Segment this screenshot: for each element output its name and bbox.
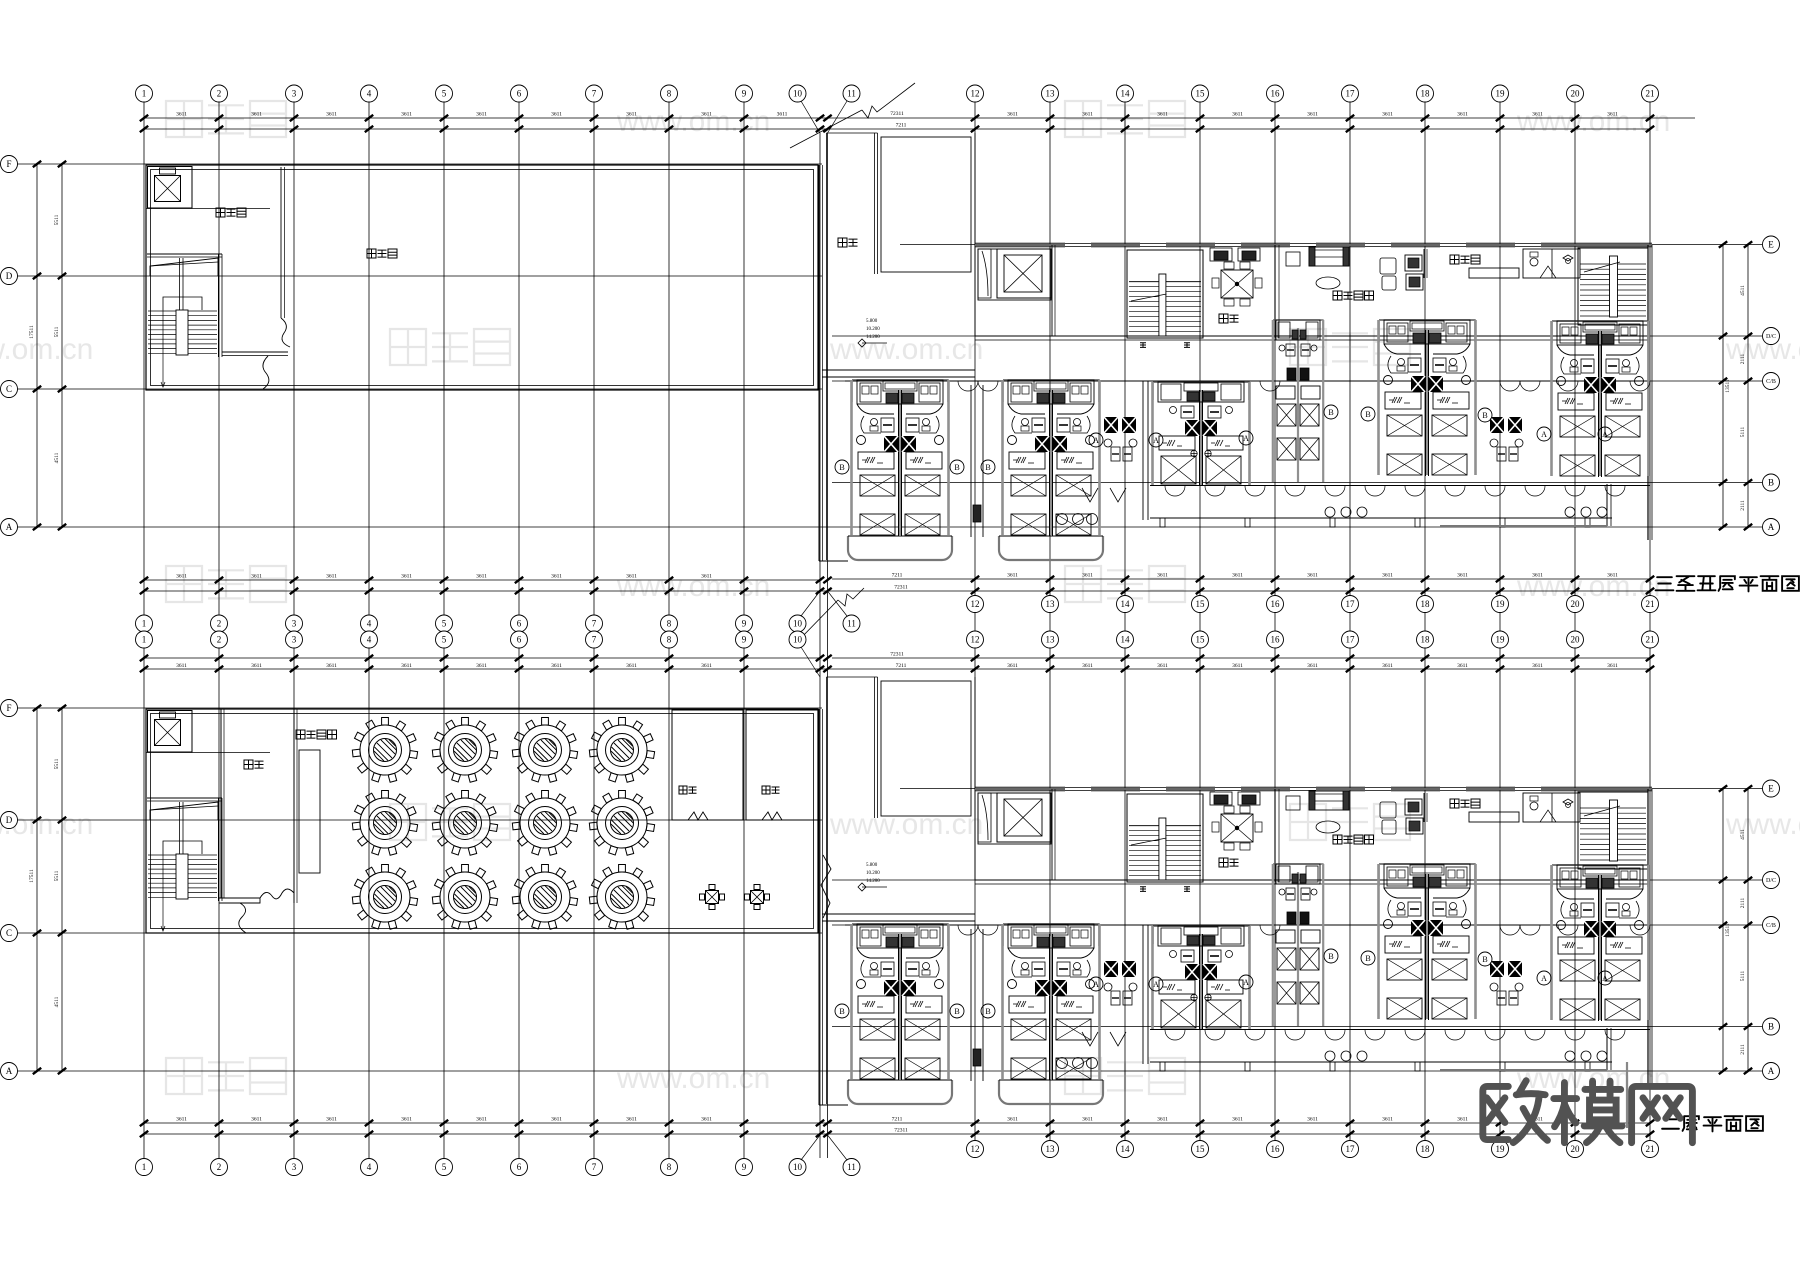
svg-text:2: 2	[217, 1162, 222, 1172]
svg-text:A: A	[1541, 974, 1547, 983]
svg-text:4511: 4511	[54, 996, 60, 1007]
svg-text:3611: 3611	[1157, 112, 1168, 118]
svg-text:3: 3	[292, 635, 297, 645]
svg-text:9: 9	[742, 635, 747, 645]
svg-text:2111: 2111	[1740, 500, 1746, 511]
svg-text:B: B	[1482, 411, 1487, 420]
svg-text:3611: 3611	[1157, 663, 1168, 669]
svg-text:3611: 3611	[326, 574, 337, 580]
svg-text:5511: 5511	[54, 870, 60, 881]
svg-text:3611: 3611	[401, 1117, 412, 1123]
svg-text:10: 10	[793, 619, 803, 629]
svg-text:16: 16	[1271, 599, 1281, 609]
svg-text:A: A	[1153, 436, 1159, 445]
svg-text:21: 21	[1646, 599, 1655, 609]
svg-text:3611: 3611	[1157, 1117, 1168, 1123]
svg-text:5111: 5111	[1740, 426, 1746, 437]
svg-text:19: 19	[1496, 599, 1506, 609]
svg-text:www.om.cn: www.om.cn	[616, 1062, 770, 1095]
stair	[1127, 794, 1203, 882]
svg-text:3611: 3611	[1307, 573, 1318, 579]
svg-text:www.om.cn: www.om.cn	[829, 808, 983, 841]
balconies	[848, 1080, 952, 1104]
stair	[1578, 248, 1648, 325]
svg-text:3611: 3611	[1232, 1117, 1243, 1123]
activity label	[1333, 291, 1342, 300]
svg-text:3611: 3611	[701, 574, 712, 580]
svg-text:13511: 13511	[1725, 923, 1731, 937]
svg-text:7211: 7211	[892, 573, 903, 579]
kitchen counters	[1210, 792, 1232, 805]
svg-text:3611: 3611	[1532, 112, 1543, 118]
svg-text:9: 9	[742, 1162, 747, 1172]
svg-text:14: 14	[1121, 635, 1131, 645]
svg-text:3611: 3611	[176, 112, 187, 118]
svg-text:D/C: D/C	[1766, 878, 1776, 884]
room tags	[835, 1004, 849, 1018]
vertical grid columns, top plan	[143, 102, 145, 1158]
svg-text:10: 10	[793, 1162, 803, 1172]
svg-text:12: 12	[971, 599, 980, 609]
private rooms	[672, 710, 743, 820]
svg-text:18: 18	[1421, 599, 1431, 609]
svg-text:3611: 3611	[1382, 663, 1393, 669]
svg-text:5: 5	[442, 89, 447, 99]
activity space	[1286, 252, 1300, 266]
svg-text:A: A	[1243, 978, 1249, 987]
svg-text:8: 8	[667, 619, 672, 629]
room tags	[835, 460, 849, 474]
svg-text:5111: 5111	[1740, 970, 1746, 981]
svg-text:3611: 3611	[551, 112, 562, 118]
svg-text:18: 18	[1421, 89, 1431, 99]
svg-text:72311: 72311	[894, 585, 908, 591]
corridor strip dy=0	[818, 165, 820, 561]
balconies	[848, 536, 952, 560]
svg-text:5511: 5511	[54, 326, 60, 337]
svg-text:4: 4	[367, 635, 372, 645]
svg-text:7: 7	[592, 635, 597, 645]
svg-text:17511: 17511	[29, 869, 35, 883]
room unit	[852, 924, 948, 946]
corridor label	[838, 238, 847, 247]
svg-text:6: 6	[517, 619, 522, 629]
svg-text:14: 14	[1121, 89, 1131, 99]
svg-text:3611: 3611	[1307, 1117, 1318, 1123]
svg-text:F: F	[6, 703, 11, 713]
svg-text:7: 7	[592, 619, 597, 629]
svg-text:3611: 3611	[1457, 573, 1468, 579]
svg-text:20: 20	[1571, 89, 1581, 99]
svg-text:12: 12	[971, 635, 980, 645]
svg-text:5511: 5511	[54, 758, 60, 769]
svg-text:E: E	[1768, 240, 1774, 250]
svg-text:3611: 3611	[1607, 112, 1618, 118]
svg-text:16: 16	[1271, 1144, 1281, 1154]
svg-text:A: A	[1243, 434, 1249, 443]
svg-text:www.om.cn: www.om.cn	[0, 333, 93, 366]
svg-text:15: 15	[1196, 89, 1206, 99]
svg-text:3611: 3611	[1232, 112, 1243, 118]
stair	[1578, 792, 1648, 869]
dining table	[1221, 814, 1253, 842]
svg-text:B: B	[985, 1007, 990, 1016]
bathroom cluster	[1490, 961, 1523, 1005]
watermark layer	[166, 101, 202, 137]
room unit	[1552, 865, 1648, 887]
svg-text:11: 11	[847, 619, 856, 629]
svg-text:7211: 7211	[892, 1117, 903, 1123]
svg-text:17511: 17511	[29, 325, 35, 339]
kitchen label	[1219, 858, 1228, 867]
elevator lobby	[978, 793, 1051, 844]
svg-text:1: 1	[142, 1162, 147, 1172]
svg-text:5: 5	[442, 619, 447, 629]
unit2 bath circles	[1057, 514, 1068, 525]
svg-text:3611: 3611	[1157, 573, 1168, 579]
svg-text:16: 16	[1271, 635, 1281, 645]
svg-text:A: A	[1093, 980, 1099, 989]
svg-text:B: B	[954, 463, 959, 472]
svg-text:3611: 3611	[1307, 663, 1318, 669]
svg-text:4511: 4511	[54, 452, 60, 463]
svg-text:3611: 3611	[326, 1117, 337, 1123]
svg-text:B: B	[1768, 1022, 1774, 1032]
svg-text:3611: 3611	[1082, 663, 1093, 669]
svg-text:3611: 3611	[1532, 573, 1543, 579]
nurse station	[1423, 249, 1425, 278]
svg-text:www.om.cn: www.om.cn	[1725, 808, 1800, 841]
svg-text:A: A	[6, 522, 13, 532]
label laundry	[216, 208, 225, 217]
svg-text:8: 8	[667, 89, 672, 99]
svg-text:3: 3	[292, 619, 297, 629]
svg-text:5: 5	[442, 1162, 447, 1172]
svg-text:3611: 3611	[1007, 663, 1018, 669]
svg-text:19: 19	[1496, 1144, 1506, 1154]
svg-text:17: 17	[1346, 599, 1356, 609]
svg-text:72311: 72311	[894, 1128, 908, 1134]
svg-text:3611: 3611	[1457, 663, 1468, 669]
svg-text:3611: 3611	[701, 663, 712, 669]
banquet round tables	[352, 718, 417, 783]
svg-text:B: B	[1328, 408, 1333, 417]
svg-text:6: 6	[517, 1162, 522, 1172]
svg-text:10: 10	[793, 635, 803, 645]
svg-text:3611: 3611	[1607, 573, 1618, 579]
svg-text:3611: 3611	[626, 574, 637, 580]
svg-text:14.200: 14.200	[866, 879, 880, 884]
svg-text:C: C	[6, 928, 12, 938]
svg-text:3611: 3611	[551, 574, 562, 580]
svg-text:4: 4	[367, 619, 372, 629]
bathroom cluster	[1490, 417, 1523, 461]
svg-text:3611: 3611	[701, 112, 712, 118]
svg-text:1: 1	[142, 635, 147, 645]
svg-text:3611: 3611	[626, 1117, 637, 1123]
svg-text:3611: 3611	[1007, 112, 1018, 118]
svg-text:4: 4	[367, 1162, 372, 1172]
svg-text:10.200: 10.200	[866, 327, 880, 332]
title: 3rd-5th floor plan	[1656, 577, 1674, 590]
svg-text:C/B: C/B	[1766, 923, 1776, 929]
big logo 欧模网	[1483, 1081, 1548, 1143]
svg-text:10: 10	[793, 89, 803, 99]
svg-text:19: 19	[1496, 89, 1506, 99]
svg-text:A: A	[1768, 522, 1775, 532]
svg-text:11: 11	[847, 89, 856, 99]
svg-text:8: 8	[667, 1162, 672, 1172]
svg-text:20: 20	[1571, 599, 1581, 609]
svg-text:13: 13	[1046, 1144, 1056, 1154]
svg-text:3611: 3611	[1382, 573, 1393, 579]
svg-text:3611: 3611	[1607, 663, 1618, 669]
svg-text:72311: 72311	[890, 111, 904, 117]
svg-text:13: 13	[1046, 89, 1056, 99]
svg-text:A: A	[1602, 974, 1608, 983]
bathroom cluster	[1104, 961, 1137, 1005]
label kitchen	[244, 760, 253, 769]
svg-text:15: 15	[1196, 635, 1206, 645]
svg-text:B: B	[1365, 410, 1370, 419]
bottom plan: left building (banquet hall)	[146, 709, 818, 933]
svg-text:19: 19	[1496, 635, 1506, 645]
vertical grid columns, bottom plan	[136, 631, 153, 648]
small tables	[700, 885, 725, 910]
svg-text:2: 2	[217, 89, 222, 99]
svg-text:21: 21	[1646, 89, 1655, 99]
svg-text:3611: 3611	[701, 1117, 712, 1123]
svg-text:3611: 3611	[476, 663, 487, 669]
top plan: left building (laundry/drying)	[146, 165, 818, 390]
right building dy=0	[975, 244, 1652, 246]
svg-text:2111: 2111	[1740, 353, 1746, 364]
svg-text:3: 3	[292, 89, 297, 99]
svg-text:3611: 3611	[1307, 112, 1318, 118]
svg-text:20: 20	[1571, 1144, 1581, 1154]
svg-text:7211: 7211	[896, 123, 907, 129]
svg-text:1: 1	[142, 619, 147, 629]
svg-text:3611: 3611	[777, 112, 788, 118]
svg-text:D: D	[6, 271, 13, 281]
svg-text:2111: 2111	[1740, 897, 1746, 908]
nurse station	[1423, 793, 1425, 822]
svg-text:10.200: 10.200	[866, 871, 880, 876]
corridor strip dy=544	[818, 709, 820, 1105]
svg-text:B: B	[839, 463, 844, 472]
elevator	[148, 711, 193, 753]
svg-text:4: 4	[367, 89, 372, 99]
svg-text:3611: 3611	[176, 1117, 187, 1123]
stair	[1127, 250, 1203, 338]
svg-text:3611: 3611	[1007, 1117, 1018, 1123]
svg-text:A: A	[1602, 430, 1608, 439]
svg-text:7: 7	[592, 1162, 597, 1172]
svg-text:B: B	[1328, 952, 1333, 961]
svg-text:3611: 3611	[251, 574, 262, 580]
svg-text:A: A	[1153, 980, 1159, 989]
svg-text:3611: 3611	[551, 1117, 562, 1123]
svg-text:9: 9	[742, 89, 747, 99]
horizontal grid rows dy=544	[18, 707, 823, 709]
break line	[790, 110, 862, 148]
svg-text:3611: 3611	[1382, 1117, 1393, 1123]
svg-text:www.om.cn: www.om.cn	[616, 570, 770, 603]
svg-text:3611: 3611	[176, 663, 187, 669]
svg-text:3611: 3611	[1082, 573, 1093, 579]
svg-text:5511: 5511	[54, 214, 60, 225]
svg-text:3611: 3611	[251, 1117, 262, 1123]
svg-text:8: 8	[667, 635, 672, 645]
svg-text:B: B	[1365, 954, 1370, 963]
activity space	[1286, 796, 1300, 810]
svg-text:B: B	[954, 1007, 959, 1016]
room unit	[1153, 382, 1249, 400]
svg-text:3611: 3611	[626, 663, 637, 669]
svg-text:7: 7	[592, 89, 597, 99]
svg-text:A: A	[1541, 430, 1547, 439]
svg-text:C: C	[6, 384, 12, 394]
svg-text:11: 11	[847, 1162, 856, 1172]
laundry wall	[280, 167, 282, 318]
svg-text:3611: 3611	[1457, 112, 1468, 118]
label drying yard	[367, 249, 376, 258]
stair	[147, 253, 222, 255]
svg-text:B: B	[1768, 478, 1774, 488]
narrow room unit	[1273, 320, 1323, 338]
room unit	[1379, 864, 1475, 886]
svg-text:3611: 3611	[1457, 1117, 1468, 1123]
svg-text:3611: 3611	[401, 663, 412, 669]
room unit	[1003, 924, 1099, 946]
svg-text:17: 17	[1346, 635, 1356, 645]
svg-text:7211: 7211	[896, 663, 907, 669]
svg-text:18: 18	[1421, 1144, 1431, 1154]
svg-text:16: 16	[1271, 89, 1281, 99]
svg-text:D: D	[6, 815, 13, 825]
svg-text:3611: 3611	[1082, 112, 1093, 118]
svg-text:5: 5	[442, 635, 447, 645]
svg-text:5.800: 5.800	[866, 319, 878, 324]
svg-text:3611: 3611	[476, 1117, 487, 1123]
svg-text:4511: 4511	[1740, 829, 1746, 840]
svg-text:72311: 72311	[890, 652, 904, 658]
svg-text:13: 13	[1046, 635, 1056, 645]
room unit	[1003, 380, 1099, 402]
svg-text:21: 21	[1646, 635, 1655, 645]
dining table	[1221, 270, 1253, 298]
svg-text:www.om.cn: www.om.cn	[829, 333, 983, 366]
svg-text:3611: 3611	[326, 663, 337, 669]
svg-text:15: 15	[1196, 599, 1206, 609]
title: 2nd floor plan	[1662, 1119, 1679, 1128]
svg-text:3611: 3611	[1232, 573, 1243, 579]
svg-text:9: 9	[742, 619, 747, 629]
narrow room unit	[1273, 864, 1323, 882]
svg-text:13: 13	[1046, 599, 1056, 609]
svg-text:17: 17	[1346, 89, 1356, 99]
elevator lobby	[978, 249, 1051, 300]
svg-text:E: E	[1768, 784, 1774, 794]
horizontal grid rows dy=0	[18, 163, 823, 165]
room unit	[1153, 926, 1249, 944]
svg-text:B: B	[1482, 955, 1487, 964]
svg-text:13511: 13511	[1725, 379, 1731, 393]
svg-text:6: 6	[517, 89, 522, 99]
svg-text:3611: 3611	[551, 663, 562, 669]
unit2 bath circles	[1057, 1058, 1068, 1069]
svg-text:www.om.cn: www.om.cn	[616, 105, 770, 138]
kitchen counters	[1210, 248, 1232, 261]
svg-text:18: 18	[1421, 635, 1431, 645]
svg-text:3611: 3611	[476, 112, 487, 118]
svg-text:20: 20	[1571, 635, 1581, 645]
room unit	[852, 380, 948, 402]
elevator	[148, 167, 193, 209]
toilet room	[1523, 793, 1580, 822]
room unit	[1552, 321, 1648, 343]
svg-text:3611: 3611	[326, 112, 337, 118]
svg-text:21: 21	[1646, 1144, 1655, 1154]
kitchen label	[1219, 314, 1228, 323]
svg-text:14: 14	[1121, 599, 1131, 609]
svg-text:17: 17	[1346, 1144, 1356, 1154]
svg-text:3611: 3611	[251, 112, 262, 118]
svg-text:12: 12	[971, 1144, 980, 1154]
svg-text:A: A	[1093, 436, 1099, 445]
svg-text:5.800: 5.800	[866, 863, 878, 868]
svg-text:2111: 2111	[1740, 1044, 1746, 1055]
svg-text:3611: 3611	[1382, 112, 1393, 118]
svg-text:B: B	[839, 1007, 844, 1016]
svg-text:1: 1	[142, 89, 147, 99]
label multifunction hall	[296, 730, 305, 739]
svg-text:3611: 3611	[1007, 573, 1018, 579]
stair	[147, 797, 222, 799]
svg-text:3611: 3611	[251, 663, 262, 669]
svg-text:3611: 3611	[1082, 1117, 1093, 1123]
right building dy=544	[975, 788, 1652, 790]
svg-text:12: 12	[971, 89, 980, 99]
svg-text:4511: 4511	[1740, 285, 1746, 296]
activity label	[1333, 835, 1342, 844]
svg-text:3611: 3611	[1232, 663, 1243, 669]
svg-text:3611: 3611	[476, 574, 487, 580]
toilet room	[1523, 249, 1580, 278]
svg-text:3611: 3611	[401, 574, 412, 580]
room unit	[1379, 320, 1475, 342]
svg-text:3611: 3611	[176, 574, 187, 580]
svg-text:15: 15	[1196, 1144, 1206, 1154]
svg-text:3: 3	[292, 1162, 297, 1172]
svg-text:3611: 3611	[1532, 663, 1543, 669]
svg-text:3611: 3611	[401, 112, 412, 118]
svg-text:14.200: 14.200	[866, 335, 880, 340]
svg-text:2: 2	[217, 635, 222, 645]
svg-text:B: B	[985, 463, 990, 472]
svg-text:A: A	[1768, 1066, 1775, 1076]
svg-text:D/C: D/C	[1766, 334, 1776, 340]
svg-text:3611: 3611	[626, 112, 637, 118]
bathroom cluster	[1104, 417, 1137, 461]
svg-text:A: A	[6, 1066, 13, 1076]
svg-text:14: 14	[1121, 1144, 1131, 1154]
svg-text:F: F	[6, 159, 11, 169]
svg-text:6: 6	[517, 635, 522, 645]
svg-text:2: 2	[217, 619, 222, 629]
svg-text:C/B: C/B	[1766, 379, 1776, 385]
